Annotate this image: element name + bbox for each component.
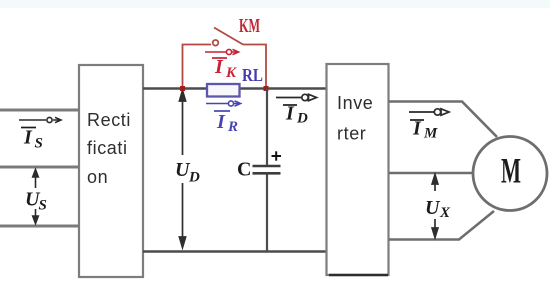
svg-text:I: I	[214, 56, 224, 78]
label Ud	[175, 159, 200, 186]
label Ir	[214, 111, 238, 135]
wire: DC+ top bus	[143, 87, 207, 89]
voltage arrow Us	[33, 170, 39, 224]
svg-text:RL: RL	[242, 65, 263, 85]
current arrow Is	[19, 117, 61, 122]
wire: input phase line 3	[0, 225, 80, 228]
label Ux	[425, 197, 451, 221]
svg-text:C: C	[237, 159, 251, 181]
contactor KM bypass wire loop	[183, 45, 267, 89]
svg-text:X: X	[439, 205, 451, 221]
voltage arrow Ux	[432, 175, 438, 238]
capacitor C plates	[253, 166, 281, 173]
svg-text:KM: KM	[239, 15, 260, 37]
current arrow Ik	[205, 49, 239, 54]
wire: capacitor branch lower	[266, 175, 268, 252]
svg-text:K: K	[225, 65, 237, 81]
svg-text:R: R	[227, 119, 238, 135]
svg-text:on: on	[87, 167, 108, 187]
contactor KM switch contact	[213, 28, 243, 46]
voltage arrow Ud	[179, 91, 185, 248]
junction node at 182	[180, 86, 185, 91]
wire: input phase line 1	[0, 109, 80, 112]
rectifier block	[79, 65, 143, 277]
label Ik	[212, 56, 237, 81]
svg-text:I: I	[285, 103, 295, 125]
wire: motor phase line 3	[389, 211, 495, 240]
polarity plus sign	[272, 151, 282, 160]
svg-text:rter: rter	[337, 124, 366, 144]
svg-text:I: I	[412, 118, 422, 140]
wire: DC+ top bus right of resistor	[239, 87, 327, 89]
svg-text:D: D	[188, 170, 200, 186]
svg-text:I: I	[216, 111, 226, 133]
label Im	[410, 118, 438, 142]
wire: motor phase line 2	[389, 172, 477, 175]
label Us	[25, 189, 47, 214]
wire: capacitor branch upper	[266, 89, 268, 166]
svg-text:Recti: Recti	[87, 110, 131, 130]
svg-text:D: D	[296, 111, 308, 127]
resistor RL	[207, 84, 240, 97]
svg-text:M: M	[423, 126, 438, 142]
svg-text:ficati: ficati	[87, 138, 128, 158]
top light band artifact	[0, 0, 550, 8]
current arrow Im	[409, 109, 449, 115]
motor M circle	[473, 137, 547, 211]
current arrow Ir	[206, 101, 241, 106]
svg-text:U: U	[425, 197, 441, 219]
svg-text:Inve: Inve	[337, 93, 373, 113]
wire: motor phase line 1	[389, 102, 498, 138]
svg-text:I: I	[23, 127, 33, 149]
label Id	[283, 103, 308, 127]
current arrow Id	[276, 94, 317, 100]
inverter block	[327, 64, 389, 275]
svg-text:M: M	[501, 151, 521, 191]
svg-text:S: S	[39, 198, 47, 214]
label Is	[21, 127, 43, 152]
junction node at 266	[264, 86, 269, 91]
wire: DC- bottom bus	[143, 250, 327, 252]
wire: input phase line 2	[0, 166, 80, 169]
svg-text:S: S	[35, 136, 43, 152]
